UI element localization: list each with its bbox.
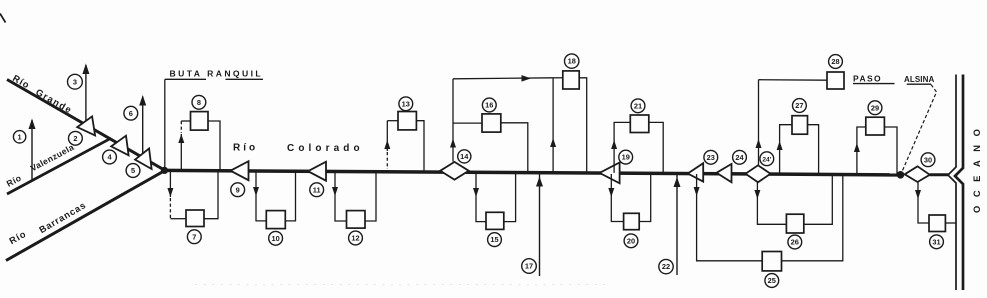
canal 10 left segment — [256, 171, 266, 221]
canal 28 horizontal segment — [759, 79, 828, 82]
svg-text:1: 1 — [18, 132, 22, 141]
svg-text:9: 9 — [236, 185, 240, 194]
reservoir box 29 — [866, 117, 885, 135]
svg-text:ALSINA: ALSINA — [904, 75, 934, 84]
svg-text:27: 27 — [795, 101, 803, 110]
canal 14-18 arrow — [522, 75, 532, 82]
canal 18 return segment — [579, 78, 587, 173]
underline BUTA — [165, 78, 206, 80]
canal 25 left segment — [697, 174, 763, 261]
river Río Grande — [7, 80, 165, 171]
svg-text:23: 23 — [707, 153, 715, 162]
station circle 24prime — [760, 152, 774, 166]
station circle 19 — [619, 150, 633, 164]
station circle 30 — [921, 153, 935, 167]
svg-text:7: 7 — [192, 232, 196, 241]
canal 18 feed segment — [553, 77, 563, 79]
svg-text:BUTA RANQUIL: BUTA RANQUIL — [170, 69, 264, 79]
gauge triangle 9 — [231, 161, 249, 180]
canal 13 arrow — [384, 140, 390, 149]
diversion diamond 30 — [905, 166, 930, 182]
svg-text:21: 21 — [634, 101, 642, 110]
canal 12 left segment — [335, 171, 347, 221]
svg-text:24': 24' — [762, 156, 771, 163]
station circle 23 — [704, 150, 718, 164]
coastline outer line — [955, 75, 963, 291]
canal 8 arrow — [178, 134, 184, 143]
canal 29 left segment — [857, 127, 866, 175]
faint scan fold line — [195, 284, 610, 286]
canal 26 left segment — [757, 182, 786, 225]
underline RANQUIL — [226, 78, 264, 80]
canal 13 top segment — [387, 120, 398, 122]
svg-text:15: 15 — [490, 235, 498, 244]
canal 7 return segment — [204, 171, 218, 219]
arrowhead 1 — [29, 119, 36, 130]
canal 7 left segment — [169, 171, 171, 197]
inflow arrow line 1 — [31, 120, 33, 182]
svg-text:12: 12 — [351, 234, 359, 243]
arrowhead 3 — [82, 64, 89, 75]
canal 7 left dashed segment — [169, 198, 171, 219]
station circle 11 — [310, 183, 324, 197]
canal 25 return segment — [782, 175, 843, 261]
river mouth segment — [930, 173, 949, 176]
station circle 1 — [13, 131, 25, 143]
svg-text:29: 29 — [871, 103, 879, 112]
reservoir box 15 — [486, 212, 504, 229]
canal 18 left segment — [552, 78, 554, 173]
station circle 22 — [659, 259, 673, 273]
canal 21 return segment — [649, 122, 663, 173]
station circle 9 — [231, 183, 245, 197]
canal 12 arrow — [332, 187, 338, 196]
station circle 24 — [733, 150, 747, 164]
gauge triangle 24 — [717, 164, 732, 182]
underline ALSINA — [907, 83, 931, 85]
station circle 20 — [624, 234, 638, 248]
reservoir box 26 — [786, 214, 803, 233]
confluence junction node — [161, 167, 168, 174]
canal 8 left dashed segment — [180, 121, 182, 133]
station circle 6 — [124, 106, 138, 120]
svg-text:Colorado: Colorado — [287, 143, 364, 154]
canal 15 arrow — [473, 188, 479, 197]
arrowhead 6 — [139, 95, 146, 106]
canal 20 return segment — [639, 174, 651, 222]
inflow line 17 — [539, 173, 541, 276]
svg-text:20: 20 — [627, 236, 635, 245]
canal 26 return segment — [804, 175, 833, 225]
BUTA RANQUIL leader line — [164, 79, 166, 169]
canal 26 arrow — [754, 190, 760, 199]
canal 28 vertical segment — [758, 80, 760, 166]
gauge triangle 5 — [135, 149, 152, 170]
diversion diamond 14 — [440, 162, 469, 180]
main river Río Colorado line — [165, 170, 904, 175]
reservoir box 21 — [630, 115, 649, 133]
station circle 26 — [788, 235, 802, 249]
river Río Barrancas — [6, 170, 165, 260]
canal 16 feed segment — [453, 122, 482, 124]
canal 28 arrow — [756, 139, 762, 148]
station circle 27 — [793, 99, 807, 113]
node Paso Alsina junction — [897, 171, 905, 179]
canal 27 return segment — [808, 125, 819, 175]
canal 25 arrow — [694, 187, 700, 196]
svg-text:17: 17 — [525, 262, 533, 271]
station circle 28 — [829, 55, 843, 69]
station circle 21 — [631, 99, 645, 113]
gauge triangle 11 — [308, 162, 326, 181]
reservoir box 8 — [191, 112, 209, 131]
inflow arrow line 6 — [142, 97, 144, 159]
svg-text:24: 24 — [735, 153, 744, 162]
canal 8 left segment — [180, 134, 182, 170]
reservoir box 27 — [792, 116, 808, 135]
coastline inner line — [948, 75, 956, 291]
reservoir box 25 — [762, 252, 781, 271]
canal 7 arrow — [167, 188, 173, 197]
svg-text:26: 26 — [791, 238, 799, 247]
svg-text:28: 28 — [831, 57, 839, 66]
svg-text:5: 5 — [131, 166, 135, 175]
underline PASO — [853, 83, 895, 85]
canal 7 bottom segment — [170, 218, 186, 220]
canal 16 return segment — [501, 123, 528, 173]
station circle 31 — [930, 235, 944, 249]
svg-text:25: 25 — [768, 276, 776, 285]
station circle 10 — [269, 231, 283, 245]
canal 15 left segment — [476, 172, 486, 222]
canal 8 return segment — [208, 121, 220, 170]
station circle 7 — [187, 230, 201, 244]
canal 20 left segment — [611, 174, 623, 222]
svg-text:8: 8 — [197, 98, 201, 107]
reservoir box 7 — [186, 210, 204, 227]
gauge triangle 23 — [688, 163, 703, 181]
svg-text:OCEANO: OCEANO — [972, 121, 982, 213]
reservoir box 16 — [482, 114, 501, 132]
canal 13 return segment — [416, 121, 424, 172]
reservoir box 31 — [929, 215, 945, 232]
svg-text:2: 2 — [73, 134, 77, 143]
svg-text:PASO: PASO — [853, 73, 882, 83]
station circle 14 — [458, 150, 471, 163]
station circle 12 — [349, 231, 363, 245]
canal 29 return segment — [884, 127, 897, 175]
station circle 13 — [399, 97, 413, 111]
station circle 29 — [868, 101, 882, 115]
canal 27 left segment — [780, 125, 792, 174]
svg-text:30: 30 — [924, 155, 932, 164]
inflow arrow line 3 — [85, 65, 87, 123]
svg-text:16: 16 — [485, 101, 493, 110]
canal 13 left segment — [386, 121, 388, 151]
svg-text:13: 13 — [402, 99, 410, 108]
reservoir box 20 — [624, 213, 640, 229]
arrowhead 17 — [536, 177, 543, 187]
gauge triangle 4 — [111, 136, 128, 156]
svg-text:31: 31 — [932, 237, 940, 246]
svg-text:3: 3 — [73, 77, 77, 86]
reservoir box 28 — [827, 72, 844, 89]
canal 27 arrow — [777, 141, 783, 150]
gauge triangle 19 — [600, 163, 620, 184]
canal 18 arrow — [550, 138, 556, 147]
canal 10 return segment — [285, 171, 295, 221]
canal 20 arrow — [608, 188, 614, 197]
PASO ALSINA pointer line — [901, 85, 937, 175]
station circle 4 — [103, 150, 117, 164]
canal 14-18 top horizontal segment — [453, 78, 553, 79]
canal 14 arrow — [450, 139, 456, 148]
station circle 18 — [565, 54, 579, 68]
svg-text:6: 6 — [129, 109, 133, 118]
reservoir box 13 — [398, 112, 416, 130]
svg-text:Río: Río — [233, 143, 258, 154]
station circle 15 — [488, 233, 502, 247]
station circle 8 — [192, 95, 206, 109]
station circle 25 — [765, 274, 779, 288]
station circle 2 — [69, 131, 83, 145]
svg-text:18: 18 — [568, 57, 576, 66]
diversion diamond 24prime — [746, 165, 771, 182]
arrowhead 22 — [674, 177, 681, 187]
inflow line 22 — [676, 174, 678, 275]
canal 15 return segment — [504, 173, 516, 222]
station circle 16 — [482, 98, 496, 112]
svg-text:10: 10 — [271, 234, 279, 243]
canal 13 left dashed segment — [386, 152, 388, 169]
gauge triangle 2 — [77, 116, 95, 135]
canal 31 outlet segment — [945, 222, 955, 224]
station circle 3 — [68, 74, 83, 89]
reservoir box 12 — [347, 211, 366, 229]
canal 31 left segment — [918, 182, 929, 224]
canal 31 arrow — [915, 190, 921, 199]
scan artifact top-left corner — [0, 14, 6, 23]
canal 29 arrow — [854, 143, 860, 152]
reservoir box 18 — [563, 71, 579, 89]
svg-text:19: 19 — [622, 153, 630, 162]
canal 10 arrow — [253, 187, 259, 196]
canal 12 return segment — [365, 172, 376, 222]
canal 21 left segment — [614, 122, 630, 172]
svg-text:11: 11 — [313, 185, 321, 194]
station circle 5 — [126, 164, 140, 178]
station circle 17 — [522, 259, 537, 274]
svg-text:14: 14 — [460, 152, 469, 161]
reservoir box 10 — [266, 211, 285, 229]
river Río Valenzuela — [7, 138, 111, 194]
canal 8 top segment — [181, 120, 190, 122]
canal 21 arrow — [611, 140, 617, 149]
svg-text:22: 22 — [662, 262, 670, 271]
canal 14 top vertical segment — [452, 79, 454, 162]
